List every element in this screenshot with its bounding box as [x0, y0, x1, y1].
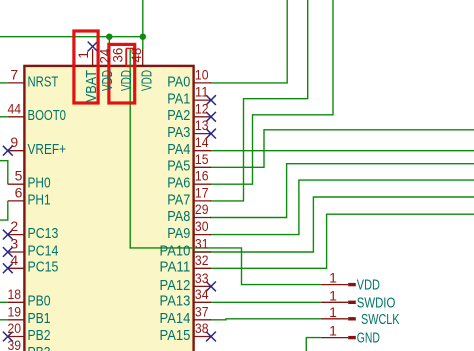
svg-text:1: 1 [329, 287, 337, 303]
svg-text:44: 44 [8, 100, 22, 116]
svg-text:18: 18 [8, 286, 22, 302]
svg-text:VDD: VDD [357, 277, 380, 294]
svg-text:7: 7 [10, 66, 18, 82]
svg-text:14: 14 [195, 134, 209, 150]
svg-text:VBAT: VBAT [83, 70, 100, 102]
svg-text:PH1: PH1 [28, 191, 51, 208]
svg-text:PA6: PA6 [167, 175, 190, 192]
svg-text:PA7: PA7 [167, 191, 190, 208]
svg-text:36: 36 [110, 48, 126, 63]
svg-text:1: 1 [329, 270, 337, 286]
svg-text:37: 37 [195, 303, 209, 319]
svg-text:PA0: PA0 [167, 73, 190, 90]
svg-text:PB1: PB1 [28, 310, 51, 327]
svg-text:PA15: PA15 [160, 327, 191, 344]
svg-text:PA10: PA10 [160, 242, 191, 259]
svg-text:VDD: VDD [138, 70, 155, 91]
svg-text:PA3: PA3 [167, 124, 190, 141]
svg-text:4: 4 [10, 252, 18, 268]
svg-text:SWDIO: SWDIO [357, 294, 396, 311]
svg-text:30: 30 [195, 218, 209, 234]
svg-text:PA11: PA11 [160, 259, 191, 276]
svg-text:38: 38 [195, 320, 209, 336]
svg-text:PA9: PA9 [167, 225, 190, 242]
svg-text:PB2: PB2 [28, 327, 51, 344]
svg-text:PC15: PC15 [28, 259, 59, 276]
svg-text:PA12: PA12 [160, 277, 191, 294]
svg-text:32: 32 [195, 252, 209, 268]
svg-text:3: 3 [10, 236, 18, 252]
svg-text:NRST: NRST [28, 73, 59, 90]
svg-text:PC14: PC14 [28, 242, 59, 259]
svg-text:BOOT0: BOOT0 [28, 107, 67, 124]
svg-text:16: 16 [195, 168, 209, 184]
svg-text:PC13: PC13 [28, 225, 59, 242]
svg-text:PA1: PA1 [167, 91, 190, 108]
svg-text:15: 15 [195, 151, 209, 167]
svg-text:17: 17 [195, 184, 209, 200]
svg-text:PH0: PH0 [28, 175, 51, 192]
svg-text:12: 12 [195, 100, 209, 116]
svg-text:PB0: PB0 [28, 293, 51, 310]
svg-text:PA13: PA13 [160, 293, 191, 310]
svg-text:13: 13 [195, 117, 209, 133]
svg-text:VDD: VDD [99, 70, 116, 91]
svg-text:33: 33 [195, 270, 209, 286]
svg-text:PA2: PA2 [167, 107, 190, 124]
svg-text:1: 1 [329, 304, 337, 320]
svg-text:PA8: PA8 [167, 208, 190, 225]
svg-text:20: 20 [8, 320, 22, 336]
svg-text:9: 9 [10, 134, 18, 150]
svg-text:5: 5 [15, 168, 23, 184]
svg-text:10: 10 [195, 66, 209, 82]
svg-text:PA5: PA5 [167, 158, 190, 175]
svg-text:31: 31 [195, 236, 209, 252]
svg-text:2: 2 [10, 218, 18, 234]
svg-text:48: 48 [128, 48, 144, 63]
svg-text:34: 34 [195, 286, 209, 302]
svg-text:1: 1 [329, 323, 337, 339]
svg-text:GND: GND [357, 330, 380, 347]
svg-text:SWCLK: SWCLK [361, 311, 400, 328]
svg-text:PA14: PA14 [160, 310, 191, 327]
svg-text:1: 1 [75, 51, 91, 59]
svg-text:19: 19 [8, 303, 22, 319]
svg-text:29: 29 [195, 201, 209, 217]
svg-text:PB3: PB3 [28, 344, 51, 351]
svg-text:PA4: PA4 [167, 141, 190, 158]
svg-text:11: 11 [195, 84, 209, 100]
svg-text:VDD: VDD [118, 70, 135, 91]
svg-text:6: 6 [15, 184, 23, 200]
svg-text:VREF+: VREF+ [28, 141, 67, 158]
svg-text:39: 39 [8, 337, 22, 351]
